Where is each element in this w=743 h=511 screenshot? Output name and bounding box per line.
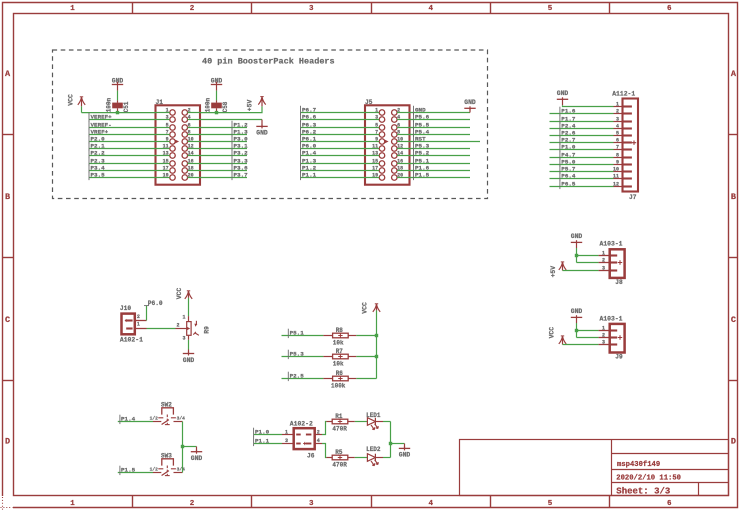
svg-text:P1.4: P1.4	[121, 415, 136, 422]
svg-text:P3.1: P3.1	[234, 142, 249, 149]
junction	[181, 445, 184, 448]
svg-text:P6.7: P6.7	[302, 106, 317, 113]
wire	[356, 335, 376, 337]
svg-text:13: 13	[372, 150, 378, 156]
net label P1.0	[254, 428, 270, 437]
svg-text:2: 2	[317, 430, 320, 436]
net label P3.4	[89, 164, 105, 173]
wire	[383, 421, 391, 423]
svg-text:12: 12	[188, 143, 194, 149]
wire	[550, 171, 614, 173]
svg-text:14: 14	[188, 150, 194, 156]
svg-text:11: 11	[372, 143, 378, 149]
wire	[89, 127, 156, 129]
svg-text:P3.6: P3.6	[234, 164, 249, 171]
junction	[575, 329, 578, 332]
ground GND (C51)	[112, 78, 124, 91]
svg-text:J8: J8	[615, 279, 623, 286]
svg-text:P3.7: P3.7	[234, 171, 249, 178]
net label P1.1	[301, 171, 317, 180]
svg-text:GND: GND	[399, 452, 411, 459]
wire	[118, 421, 153, 423]
svg-text:B: B	[731, 192, 736, 202]
LED LED1	[367, 418, 378, 430]
wire	[577, 248, 599, 263]
wire	[89, 148, 156, 150]
svg-text:10k: 10k	[333, 340, 344, 347]
svg-text:6: 6	[667, 500, 672, 508]
svg-text:P2.7: P2.7	[561, 136, 576, 143]
svg-text:10: 10	[613, 166, 619, 172]
svg-text:P1.2: P1.2	[302, 164, 317, 171]
svg-text:P6.1: P6.1	[302, 135, 317, 142]
svg-text:5: 5	[616, 130, 619, 136]
wire	[410, 119, 471, 121]
net label P3.7	[232, 171, 248, 180]
net label P6.3	[301, 121, 317, 130]
junction	[575, 254, 578, 257]
net label P5.7	[560, 165, 576, 174]
net label P6.0	[144, 300, 163, 307]
ground GND (J1 pin4)	[256, 124, 268, 136]
wire (resistor lead)	[326, 457, 332, 459]
svg-text:18: 18	[397, 165, 403, 171]
wire	[550, 186, 614, 188]
net label RST	[414, 135, 427, 144]
wire	[182, 422, 184, 447]
svg-text:P5.4: P5.4	[415, 128, 430, 135]
svg-text:P1.5: P1.5	[121, 466, 136, 473]
wire	[563, 105, 614, 106]
wire	[550, 121, 614, 123]
connector J8 (A103-1) body	[599, 249, 625, 278]
svg-text:2: 2	[188, 107, 191, 113]
svg-text:2: 2	[190, 5, 195, 13]
svg-text:P2.5: P2.5	[290, 372, 305, 379]
wire (resistor lead)	[348, 421, 355, 423]
svg-text:4: 4	[317, 438, 320, 444]
supply VCC (J1)	[78, 97, 85, 106]
svg-text:GND: GND	[191, 455, 203, 462]
supply VCC (J9)	[559, 336, 566, 345]
wire	[550, 164, 614, 166]
pin numbers J5	[372, 107, 403, 178]
net label P3.5	[89, 171, 105, 180]
svg-text:P5.2: P5.2	[415, 149, 430, 156]
svg-text:GND: GND	[571, 308, 583, 315]
svg-text:GND: GND	[464, 99, 476, 106]
svg-text:100k: 100k	[331, 383, 346, 390]
ground stem	[261, 120, 263, 127]
svg-text:P3.3: P3.3	[234, 157, 249, 164]
wire	[410, 177, 471, 179]
wire	[118, 472, 153, 474]
net label P3.2	[232, 149, 248, 158]
wire	[146, 305, 148, 320]
wire	[410, 170, 471, 172]
svg-text:VCC: VCC	[176, 288, 183, 300]
svg-text:P4.7: P4.7	[561, 151, 576, 158]
connector J9 (A103-1) body	[599, 324, 625, 353]
ground GND (J5 pin2)	[464, 99, 476, 110]
svg-text:GND: GND	[183, 357, 195, 364]
supply +5V (J1)	[258, 97, 265, 107]
wire (resistor lead)	[323, 335, 332, 337]
svg-text:LED2: LED2	[366, 446, 381, 453]
wire	[550, 157, 614, 159]
pin numbers J7	[613, 101, 619, 187]
header J1	[156, 105, 201, 184]
wire (resistor lead)	[326, 421, 332, 423]
wire	[254, 434, 283, 436]
svg-text:2: 2	[397, 107, 400, 113]
svg-text:2: 2	[137, 314, 140, 320]
wire	[89, 170, 156, 172]
svg-text:4: 4	[428, 500, 433, 508]
wire	[355, 457, 368, 459]
svg-text:3: 3	[375, 114, 378, 120]
net label P6.5	[560, 180, 576, 189]
resistor R6	[333, 376, 349, 381]
wire	[410, 163, 471, 165]
wire (resistor lead)	[348, 356, 356, 358]
svg-text:P5.0: P5.0	[561, 158, 576, 165]
svg-text:J10: J10	[120, 305, 131, 312]
svg-text:C: C	[5, 315, 10, 325]
svg-text:P2.3: P2.3	[91, 157, 106, 164]
wire	[82, 112, 156, 114]
svg-text:J1: J1	[156, 99, 164, 106]
supply +5V (J8)	[559, 262, 566, 271]
svg-text:3: 3	[602, 265, 605, 271]
svg-text:4: 4	[428, 5, 433, 13]
wire	[301, 177, 366, 179]
net label P1.1	[254, 437, 270, 446]
svg-text:16: 16	[188, 158, 194, 164]
svg-text:P5.5: P5.5	[415, 121, 430, 128]
wire	[89, 163, 156, 165]
svg-text:6: 6	[616, 137, 619, 143]
connector J7 (A112-1) body	[614, 99, 639, 192]
capacitor C58	[211, 100, 222, 112]
net label P6.2	[301, 128, 317, 137]
svg-text:1: 1	[285, 430, 288, 436]
wire	[390, 422, 392, 458]
wire	[200, 141, 247, 143]
wire	[550, 142, 614, 144]
pin numbers J1	[163, 107, 194, 178]
net label P2.0	[89, 135, 105, 144]
wire	[550, 178, 614, 180]
svg-text:J5: J5	[365, 99, 373, 106]
dashed box: 40 pin BoosterPack Headers	[53, 50, 488, 199]
svg-text:A102-2: A102-2	[290, 421, 313, 428]
svg-text:10k: 10k	[333, 361, 344, 368]
wire	[200, 119, 262, 121]
wire	[89, 141, 156, 143]
svg-text:C58: C58	[222, 101, 229, 112]
svg-text:P1.0: P1.0	[255, 428, 270, 435]
net label P1.4	[301, 149, 317, 158]
wire	[356, 356, 376, 358]
ground stem	[188, 350, 190, 354]
net label P5.1	[414, 157, 430, 166]
svg-text:40 pin BoosterPack Headers: 40 pin BoosterPack Headers	[202, 57, 335, 67]
svg-text:J9: J9	[615, 354, 623, 361]
net label P5.4	[414, 128, 430, 137]
wire	[301, 170, 366, 172]
svg-text:P2.4: P2.4	[561, 122, 576, 129]
svg-text:GND: GND	[557, 90, 569, 97]
wire	[188, 298, 190, 316]
wire	[301, 163, 366, 165]
supply VCC (R9)	[185, 291, 192, 299]
net label P5.2	[414, 149, 430, 158]
svg-text:+5V: +5V	[550, 266, 557, 278]
svg-text:11: 11	[613, 173, 619, 179]
wire	[550, 113, 614, 115]
net label P5.6	[414, 113, 430, 122]
svg-text:P1.0: P1.0	[561, 143, 576, 150]
svg-text:3: 3	[309, 500, 314, 508]
net label P2.1	[89, 142, 105, 151]
wire	[301, 112, 366, 114]
wire	[301, 141, 366, 143]
svg-text:470R: 470R	[332, 462, 347, 469]
net label P3.6	[232, 164, 248, 173]
svg-text:16: 16	[397, 158, 403, 164]
svg-text:19: 19	[163, 172, 169, 178]
title block	[460, 440, 729, 496]
ground stem	[196, 447, 198, 452]
svg-text:8: 8	[188, 129, 191, 135]
svg-text:3: 3	[309, 5, 314, 13]
wire	[563, 270, 599, 272]
wire	[322, 444, 326, 458]
svg-text:3/4: 3/4	[177, 466, 186, 472]
svg-text:P6.4: P6.4	[561, 172, 576, 179]
svg-text:+5V: +5V	[246, 100, 253, 112]
svg-text:1/2: 1/2	[150, 415, 159, 421]
svg-text:3: 3	[616, 116, 619, 122]
svg-text:9: 9	[166, 136, 169, 142]
svg-text:P1.2: P1.2	[234, 121, 249, 128]
wire	[356, 378, 376, 380]
header J5	[365, 105, 410, 184]
svg-text:3: 3	[182, 335, 185, 341]
resistor R1	[332, 419, 348, 424]
svg-text:P5.3: P5.3	[415, 142, 430, 149]
pin numbers R9	[177, 314, 186, 341]
wire	[410, 155, 471, 157]
wire	[200, 170, 247, 172]
svg-text:P6.5: P6.5	[561, 180, 576, 187]
svg-text:P3.0: P3.0	[234, 135, 249, 142]
svg-text:1: 1	[137, 322, 140, 328]
svg-text:19: 19	[372, 172, 378, 178]
pin numbers J8	[602, 250, 605, 271]
resistor R8	[333, 333, 349, 338]
wire	[200, 134, 247, 136]
svg-text:1: 1	[70, 500, 75, 508]
svg-text:P1.6: P1.6	[415, 164, 430, 171]
junction	[116, 111, 119, 114]
svg-text:VEREF-: VEREF-	[91, 121, 112, 128]
svg-text:J7: J7	[629, 194, 637, 201]
wire	[577, 323, 599, 338]
svg-text:7: 7	[375, 129, 378, 135]
wire	[200, 106, 262, 112]
svg-text:1: 1	[375, 107, 378, 113]
net label P5.0	[560, 158, 576, 167]
svg-text:P6.6: P6.6	[302, 113, 317, 120]
svg-text:P2.6: P2.6	[561, 129, 576, 136]
svg-text:1: 1	[602, 250, 605, 256]
svg-text:2020/2/10 11:50: 2020/2/10 11:50	[616, 474, 681, 482]
svg-text:R6: R6	[336, 370, 344, 377]
svg-text:1: 1	[166, 107, 169, 113]
pin numbers J9	[602, 325, 605, 345]
svg-text:R1: R1	[335, 413, 343, 420]
svg-text:A103-1: A103-1	[600, 241, 623, 248]
wire	[410, 112, 471, 114]
net label VEREF-	[89, 121, 112, 130]
svg-text:5: 5	[375, 122, 378, 128]
svg-text:C51: C51	[123, 101, 130, 112]
resistor R7	[333, 354, 349, 359]
svg-text:P1.7: P1.7	[561, 115, 576, 122]
wire	[200, 177, 247, 179]
svg-text:SW3: SW3	[161, 452, 172, 459]
wire	[282, 356, 324, 358]
svg-text:4: 4	[616, 123, 619, 129]
svg-text:P5.6: P5.6	[415, 113, 430, 120]
net label P1.5	[120, 466, 136, 475]
svg-text:5: 5	[166, 122, 169, 128]
svg-text:15: 15	[372, 158, 378, 164]
ground GND (R9)	[183, 352, 195, 364]
svg-text:P3.5: P3.5	[91, 171, 106, 178]
svg-text:13: 13	[163, 150, 169, 156]
svg-text:P5.1: P5.1	[290, 329, 305, 336]
svg-text:A: A	[731, 69, 737, 79]
wire	[89, 134, 156, 136]
svg-text:1: 1	[602, 325, 605, 331]
svg-text:VREF+: VREF+	[91, 128, 109, 135]
net label P5.3	[414, 142, 430, 151]
svg-text:Sheet: 3/3: Sheet: 3/3	[616, 487, 670, 497]
net label P2.6	[560, 129, 576, 138]
svg-text:10: 10	[397, 136, 403, 142]
wire	[117, 91, 119, 101]
svg-text:9: 9	[375, 136, 378, 142]
net label P1.6	[414, 164, 430, 173]
pin labels SW2	[150, 415, 186, 421]
wire	[355, 421, 368, 423]
svg-text:6: 6	[397, 122, 400, 128]
svg-text:5: 5	[548, 500, 553, 508]
net label P5.3	[288, 350, 304, 359]
net label P6.6	[301, 113, 317, 122]
ground GND (J9)	[571, 308, 583, 323]
svg-text:GND: GND	[256, 130, 268, 137]
junction	[215, 111, 218, 114]
ground GND (LEDs)	[399, 446, 411, 458]
net label P2.7	[560, 136, 576, 145]
svg-text:C: C	[731, 315, 736, 325]
wire	[282, 378, 324, 380]
svg-text:P6.3: P6.3	[302, 121, 317, 128]
svg-text:VCC: VCC	[67, 94, 74, 106]
svg-text:R9: R9	[204, 326, 211, 334]
svg-text:R8: R8	[336, 327, 344, 334]
junction	[375, 355, 378, 358]
svg-text:1: 1	[70, 5, 75, 13]
svg-text:VCC: VCC	[549, 327, 556, 339]
net label P5.1	[288, 329, 304, 338]
svg-text:1: 1	[182, 314, 185, 320]
junction	[375, 334, 378, 337]
svg-text:1: 1	[616, 101, 619, 107]
svg-text:GND: GND	[571, 233, 583, 240]
pin labels SW3	[150, 466, 186, 472]
wire	[188, 340, 190, 350]
net label P1.5	[414, 171, 430, 180]
svg-text:LED1: LED1	[366, 412, 381, 419]
svg-text:9: 9	[616, 159, 619, 165]
svg-text:GND: GND	[415, 106, 426, 113]
svg-text:msp430f149: msp430f149	[617, 461, 660, 469]
svg-text:R5: R5	[335, 449, 343, 456]
svg-text:3: 3	[166, 114, 169, 120]
wire	[376, 310, 378, 378]
junction	[389, 442, 392, 445]
wire	[282, 335, 324, 337]
wire (resistor lead)	[348, 378, 356, 380]
connector J10 (A102-1) body	[122, 314, 147, 335]
net label P1.4	[120, 415, 136, 424]
svg-text:17: 17	[372, 165, 378, 171]
ground GND (J7 pin1)	[557, 90, 569, 105]
svg-text:P6.0: P6.0	[148, 300, 163, 307]
svg-text:VCC: VCC	[361, 302, 368, 314]
net label P2.2	[89, 149, 105, 158]
svg-text:P5.1: P5.1	[415, 157, 430, 164]
svg-text:2: 2	[616, 108, 619, 114]
svg-text:P1.6: P1.6	[561, 107, 576, 114]
net label P1.0	[560, 143, 576, 152]
svg-text:RST: RST	[415, 135, 426, 142]
svg-text:10: 10	[188, 136, 194, 142]
net label GND	[414, 106, 427, 115]
net label P6.7	[301, 106, 317, 115]
svg-text:3/4: 3/4	[177, 415, 186, 421]
net label P1.2	[301, 164, 317, 173]
svg-text:P1.4: P1.4	[302, 149, 317, 156]
svg-text:470R: 470R	[332, 426, 347, 433]
wire	[81, 106, 83, 112]
wire	[183, 446, 197, 448]
ground GND (J8)	[571, 233, 583, 248]
wire	[410, 148, 471, 150]
svg-text:5: 5	[548, 5, 553, 13]
svg-text:P3.2: P3.2	[234, 149, 249, 156]
svg-text:4: 4	[188, 114, 191, 120]
net label P5.5	[414, 121, 430, 130]
wire	[301, 155, 366, 157]
wire	[391, 443, 405, 445]
svg-text:2: 2	[602, 332, 605, 338]
